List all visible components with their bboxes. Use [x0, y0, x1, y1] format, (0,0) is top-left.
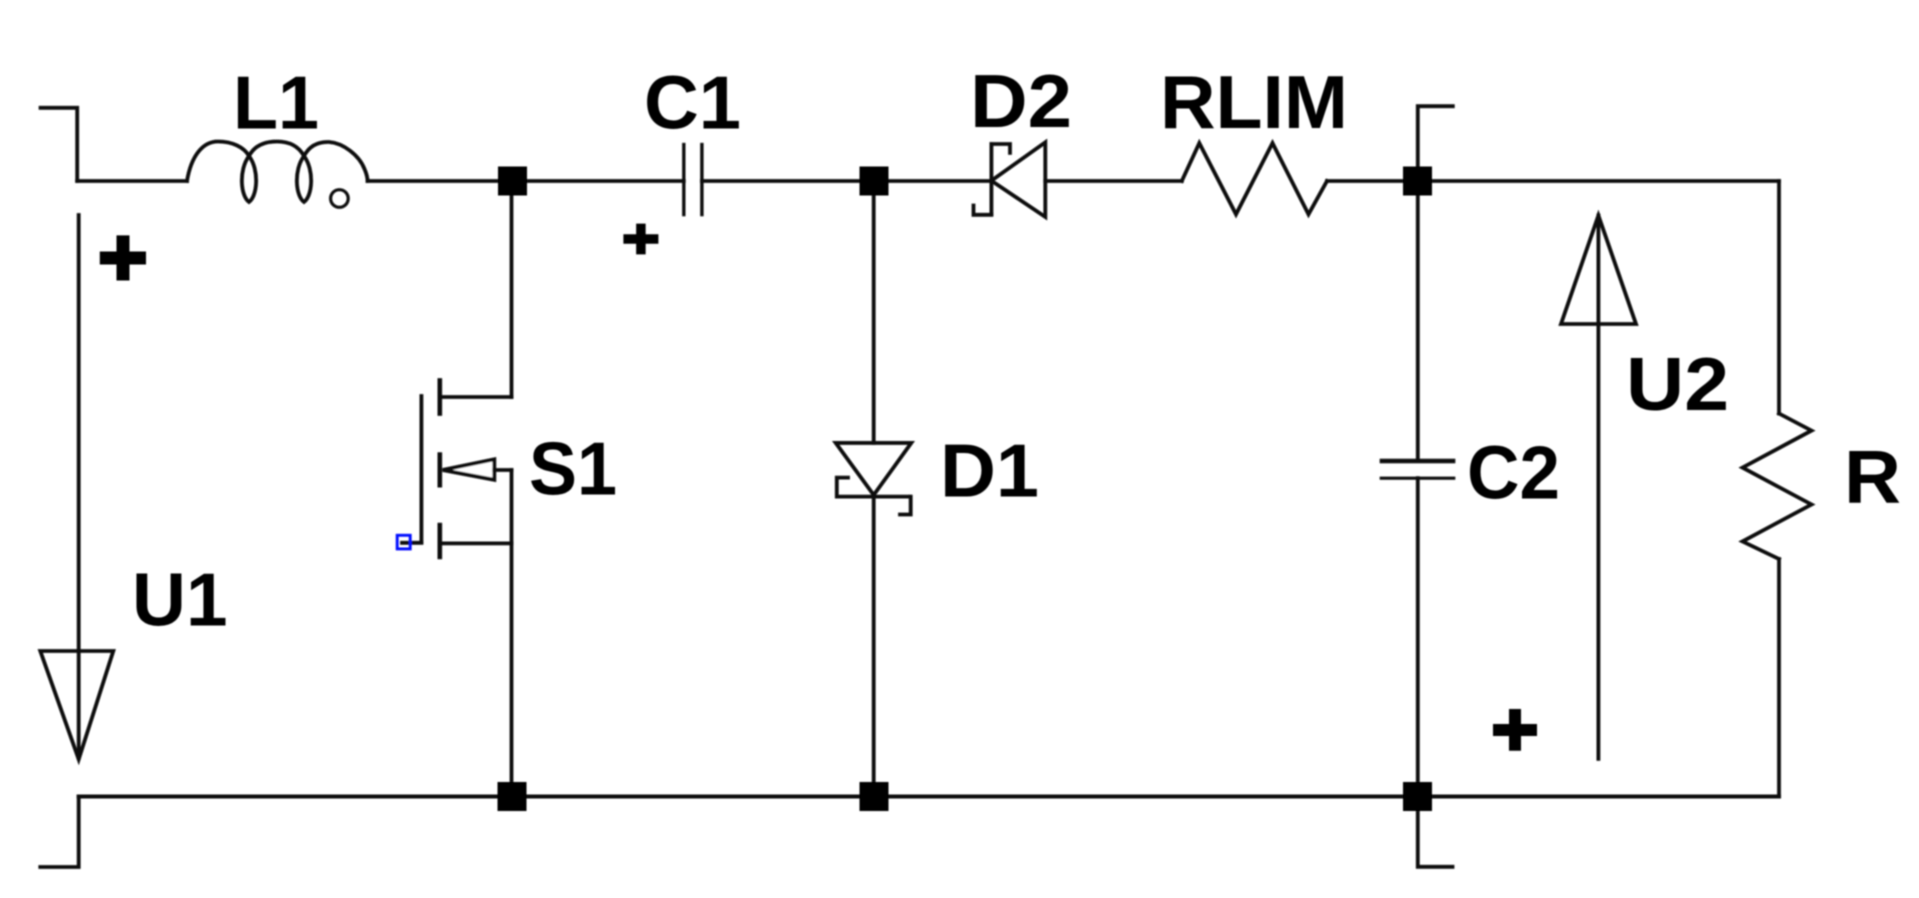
wire D2 to RLIM — [1045, 179, 1182, 183]
transistor S1 source wire to rail — [510, 470, 514, 797]
wire R to bottom rail — [1777, 559, 1781, 797]
zener D1 anode bar — [836, 441, 912, 445]
zener D1 cathode left flag — [837, 478, 848, 497]
wire corner down to R — [1777, 181, 1781, 414]
diode D2 cathode top flag — [991, 144, 1010, 153]
node at C2 bottom rail — [1403, 782, 1432, 811]
plus of U2 — [1493, 709, 1537, 751]
transistor S1 source lead — [440, 542, 512, 546]
svg-text:L1: L1 — [233, 61, 319, 145]
svg-text:C1: C1 — [644, 61, 741, 145]
plus of U1 — [100, 235, 146, 280]
svg-text:U1: U1 — [132, 558, 228, 642]
output voltage U2 arrowhead — [1561, 216, 1636, 325]
transistor S1 channel middle bar — [437, 452, 442, 487]
zener D1 anode wire from node — [872, 181, 876, 443]
wire top-right output stub — [1418, 106, 1453, 181]
capacitor C2 bottom plate — [1380, 477, 1456, 480]
wire S1 node to C1 — [512, 179, 684, 183]
transistor S1 body arrow — [443, 459, 495, 480]
wire bottom-right return stub — [1418, 797, 1453, 867]
node at output top — [1403, 167, 1432, 196]
inductor L1 — [187, 142, 368, 203]
wire bottom rail — [79, 795, 1779, 799]
svg-text:R: R — [1844, 435, 1901, 519]
transistor S1 body lead — [494, 468, 511, 472]
diode D2 triangle — [991, 142, 1045, 217]
wire RLIM to output node — [1327, 179, 1418, 183]
svg-text:D2: D2 — [970, 59, 1072, 143]
capacitor C1 plate right — [700, 143, 703, 216]
wire bottom-left return stub — [40, 797, 78, 868]
transistor S1 channel top bar — [437, 378, 442, 416]
wire from input to L1 — [77, 179, 187, 183]
voltage source U1 arrowhead — [40, 651, 113, 759]
resistor R zigzag — [1743, 414, 1812, 560]
wire D1 node to D2 — [874, 179, 991, 183]
resistor RLIM zigzag — [1182, 143, 1327, 214]
svg-text:S1: S1 — [529, 427, 617, 511]
wire C1 to D1 node — [702, 179, 874, 183]
transistor S1 gate stub — [402, 541, 421, 545]
zener D1 cathode right flag — [900, 497, 911, 515]
zener D1 triangle — [836, 443, 912, 495]
svg-text:D1: D1 — [940, 429, 1039, 513]
node at S1 source rail — [498, 782, 527, 811]
transistor S1 drain wire — [510, 181, 514, 397]
port square at S1 gate — [397, 535, 410, 549]
transistor S1 drain lead — [440, 395, 512, 399]
capacitor C2 bottom wire — [1416, 478, 1420, 796]
node at D1 top — [860, 167, 889, 196]
capacitor C1 plate left — [682, 143, 685, 216]
wire output node to R corner — [1418, 179, 1780, 183]
output voltage U2 arrow line — [1597, 216, 1601, 759]
zener D1 cathode bar — [837, 495, 911, 499]
svg-text:C2: C2 — [1467, 431, 1560, 515]
capacitor C2 top wire — [1416, 181, 1420, 461]
plus of C1 — [623, 224, 658, 255]
L1 polarity dot — [331, 190, 349, 208]
transistor S1 channel bottom bar — [437, 523, 442, 559]
wire L1 to S1 drain node — [368, 179, 512, 183]
svg-text:RLIM: RLIM — [1160, 60, 1348, 144]
node at D1 bottom rail — [860, 782, 889, 811]
transistor S1 gate bar — [419, 396, 423, 542]
svg-text:U2: U2 — [1626, 342, 1729, 426]
diode D2 cathode bar — [990, 142, 994, 215]
node at S1 drain — [498, 167, 527, 196]
zener D1 cathode wire to rail — [872, 497, 876, 797]
voltage source U1 arrow line — [77, 215, 81, 758]
wire top-left input stub — [41, 108, 78, 181]
capacitor C2 top plate — [1380, 459, 1456, 464]
diode D2 cathode bottom flag — [974, 206, 992, 215]
